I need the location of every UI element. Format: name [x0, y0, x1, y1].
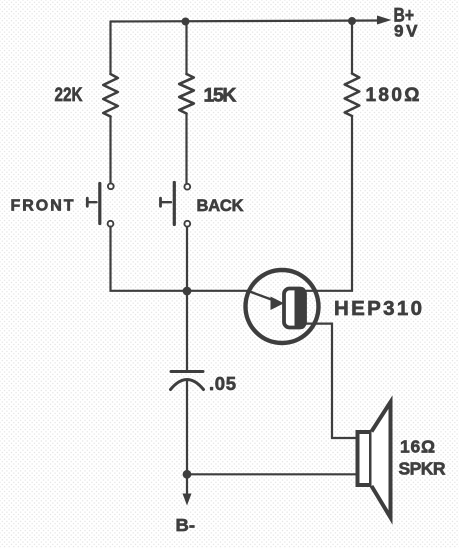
- wire B- stub: [186, 474, 188, 498]
- svg-text:22K: 22K: [55, 84, 83, 106]
- transistor Q1 circle: [246, 270, 319, 343]
- svg-text:180Ω: 180Ω: [366, 85, 420, 106]
- svg-text:16Ω: 16Ω: [400, 437, 435, 457]
- wire base feed to transistor: [187, 290, 247, 292]
- wire left branch upper: [109, 22, 111, 75]
- speaker LS1 cone: [372, 402, 391, 518]
- wire middle to capacitor: [186, 291, 188, 371]
- wire middle branch mid: [185, 114, 187, 184]
- svg-text:HEP310: HEP310: [334, 297, 422, 320]
- wire capacitor to B- junction: [186, 381, 188, 475]
- junction dot top middle: [182, 18, 190, 26]
- wire right branch upper: [351, 22, 353, 74]
- svg-text:B-: B-: [176, 515, 196, 535]
- arrow B- head: [183, 494, 192, 506]
- resistor R1 22K: [103, 74, 118, 117]
- switch S2 BACK: [161, 183, 191, 227]
- wire bottom return B- to speaker: [187, 473, 356, 475]
- svg-text:BACK: BACK: [197, 197, 244, 215]
- svg-text:FRONT: FRONT: [11, 198, 74, 215]
- junction dot base node: [183, 287, 192, 296]
- switch S1 FRONT: [87, 183, 113, 226]
- resistor R2 15K: [179, 74, 194, 114]
- junction dot top right: [348, 17, 356, 25]
- wire middle branch lower: [186, 227, 188, 291]
- svg-text:.05: .05: [209, 373, 236, 394]
- junction dot bottom node: [183, 470, 192, 479]
- wire left branch mid: [109, 117, 111, 183]
- arrow B+ head: [377, 16, 392, 25]
- wire middle branch upper: [185, 22, 187, 75]
- svg-text:15K: 15K: [204, 85, 237, 107]
- capacitor C1 .05 top plate: [171, 370, 203, 373]
- transistor Q1 body bar: [284, 287, 306, 329]
- svg-text:SPKR: SPKR: [399, 459, 446, 479]
- wire top rail B+: [111, 21, 384, 22]
- wire emitter to speaker: [303, 324, 356, 438]
- wire right branch to collector: [303, 116, 352, 291]
- svg-text:9V: 9V: [394, 22, 418, 41]
- transistor Q1 base arrow: [247, 291, 284, 311]
- wire left branch lower: [111, 227, 188, 291]
- capacitor C1 bottom plate: [171, 380, 204, 390]
- resistor R3 180ohm: [345, 74, 360, 117]
- speaker LS1 box: [358, 432, 372, 485]
